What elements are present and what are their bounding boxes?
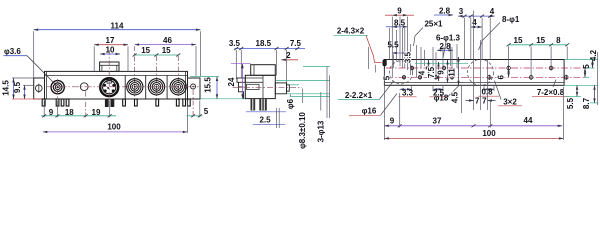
svg-text:7: 7 [475, 97, 480, 106]
phi18 hidden circle [468, 59, 494, 85]
svg-text:4: 4 [418, 70, 427, 75]
svg-text:9: 9 [49, 108, 54, 117]
dimension 100 bottom [384, 87, 563, 140]
RCA pins lower row [488, 75, 569, 80]
left mounting ear [34, 78, 45, 99]
svg-text:4.5: 4.5 [451, 91, 460, 103]
svg-text:5: 5 [582, 64, 591, 69]
ext stubs below body [412, 85, 495, 91]
side view top block [251, 65, 276, 76]
jack J1 concentric [51, 81, 64, 94]
dimension 9 top [385, 7, 414, 16]
svg-text:15: 15 [514, 36, 523, 45]
rotated small dims 3.5 4 7.5 9 11 5 [383, 51, 457, 80]
svg-text:24: 24 [227, 77, 236, 86]
bottom chain 9 37 44 [384, 69, 562, 140]
top chain dim line 3.5 18.5 7.5 [229, 39, 305, 84]
label 3-phi13 rotated [316, 92, 325, 142]
svg-text:7: 7 [482, 97, 487, 106]
left ear hole [36, 85, 43, 92]
svg-text:19: 19 [92, 108, 101, 117]
mounting slot 4.3x2 [383, 60, 386, 66]
svg-text:2.5: 2.5 [259, 115, 271, 124]
dimension 24 rotated [227, 64, 251, 99]
svg-text:10: 10 [106, 45, 115, 54]
svg-text:φ8.3±0.10: φ8.3±0.10 [298, 112, 307, 149]
svg-text:φ3.6: φ3.6 [4, 47, 21, 56]
label phi18 with leader [434, 86, 459, 103]
side view main body [245, 75, 275, 98]
plain hole [80, 83, 88, 91]
svg-text:100: 100 [107, 123, 121, 132]
dimension 6 between pin rows [497, 68, 509, 80]
far right ext vertical [597, 52, 599, 105]
label 7-2x0.8 with leader [532, 80, 569, 97]
svg-text:3: 3 [459, 7, 464, 16]
label 6-phi1.3 [436, 34, 461, 58]
svg-text:46: 46 [163, 36, 172, 45]
RCA jack 2 [148, 79, 164, 95]
label 2-2.2x1 with leader [338, 81, 394, 100]
left slot ext line [368, 47, 370, 69]
dimension 15.5 rotated [190, 77, 246, 99]
side view front tab [237, 78, 245, 82]
svg-text:2.8: 2.8 [439, 6, 451, 15]
dimension 8.5 [386, 18, 407, 27]
mini-DIN connector U1 [100, 78, 118, 96]
jack J1 vertical centerline [56, 79, 58, 100]
svg-text:φ18: φ18 [434, 94, 449, 103]
svg-text:7-2×0.8: 7-2×0.8 [537, 88, 565, 97]
dimension 5 bottom right [187, 90, 209, 117]
DIN vertical centerline [108, 50, 110, 100]
svg-text:3-φ13: 3-φ13 [316, 120, 325, 142]
svg-text:15.5: 15.5 [204, 77, 213, 93]
RCA jack 3 [170, 79, 186, 95]
dimension 5.5 [387, 40, 407, 68]
svg-text:5.5: 5.5 [566, 97, 575, 109]
svg-text:3.3: 3.3 [402, 88, 414, 97]
svg-text:3.5: 3.5 [229, 39, 241, 48]
side view legs hatched [251, 99, 256, 111]
dimension 2.5 [430, 88, 449, 97]
label phi8.3 +-0.10 rotated [298, 89, 307, 149]
svg-text:114: 114 [111, 22, 124, 31]
ext line to DIN pins [415, 63, 468, 65]
RCA bezel partitions [125, 75, 167, 99]
svg-text:φ16: φ16 [362, 107, 377, 116]
svg-text:18.5: 18.5 [256, 39, 272, 48]
svg-text:2-4.3×2: 2-4.3×2 [337, 27, 365, 36]
side view rear barrel [275, 83, 286, 94]
dimension 2.8 b [437, 42, 453, 51]
dimension 2.5 bottom [253, 108, 285, 128]
dimension 3 top [458, 7, 495, 17]
ext verticals far right of side view [326, 67, 328, 119]
pin row centerline upper [386, 67, 584, 69]
dimension 4 top b [471, 18, 482, 27]
din raised block [100, 62, 119, 71]
bottom chain dims 9 18 19 [41, 92, 116, 118]
svg-text:8: 8 [556, 36, 561, 45]
panel inner top line [45, 74, 188, 76]
svg-text:17: 17 [106, 36, 115, 45]
DIN pins upper row [410, 66, 445, 71]
label 3x2 with leader [495, 81, 523, 107]
svg-text:6: 6 [497, 75, 506, 80]
top block seam line [253, 65, 255, 76]
svg-text:3×2: 3×2 [503, 97, 517, 106]
svg-text:9: 9 [437, 70, 446, 75]
solder legs row [42, 99, 190, 106]
dimension 7.5 [290, 39, 302, 48]
dimension 9.5 rotated [13, 81, 35, 99]
svg-text:5: 5 [204, 107, 209, 116]
svg-text:9: 9 [397, 7, 402, 16]
RCA pins upper row [507, 65, 553, 70]
dimension 2 [281, 51, 298, 60]
ext lines right of side view [276, 67, 330, 97]
svg-text:4: 4 [490, 7, 495, 16]
right ear hole [191, 84, 196, 89]
RCA jack 1 [127, 79, 143, 95]
svg-text:2: 2 [286, 51, 291, 60]
side view barrel tip [287, 85, 290, 91]
svg-text:2.8: 2.8 [439, 42, 451, 51]
svg-text:11: 11 [448, 68, 457, 77]
phi16 hidden circle [389, 61, 412, 84]
svg-text:8.7: 8.7 [582, 97, 591, 109]
dimension 3.3 [399, 88, 417, 97]
dimension 5.5 rotated bottom [566, 85, 577, 109]
svg-text:8-φ1: 8-φ1 [502, 15, 520, 24]
svg-text:9: 9 [390, 116, 395, 125]
label phi16 with leader [349, 94, 397, 116]
dimension 114 [34, 22, 201, 78]
dimension 46 [135, 36, 196, 76]
bottom view body outline [384, 60, 564, 86]
label 2-4.3x2 with leader [334, 27, 382, 73]
svg-text:14.5: 14.5 [2, 80, 11, 96]
side view snap clip [239, 82, 244, 98]
din ground legs [105, 99, 109, 107]
svg-text:5.5: 5.5 [387, 40, 399, 49]
right ext horizontals [564, 60, 598, 103]
svg-text:4: 4 [472, 18, 477, 27]
svg-text:15: 15 [141, 46, 150, 55]
svg-text:15: 15 [536, 36, 545, 45]
pin row centerline lower [386, 76, 584, 78]
label 8-phi1 with leader [479, 15, 520, 50]
svg-text:3.5: 3.5 [404, 51, 413, 63]
panel inner side lines [46, 71, 48, 99]
DIN pins lower row [402, 75, 453, 80]
label phi3.6 with leader [4, 47, 57, 86]
side view contact slot [247, 84, 260, 89]
dimension 7 7 [466, 11, 496, 110]
svg-text:9.5: 9.5 [13, 81, 22, 93]
center axis dash-dot [233, 86, 303, 88]
svg-text:4.2: 4.2 [589, 49, 598, 61]
side view internal lines [245, 77, 263, 79]
svg-text:100: 100 [482, 129, 496, 138]
label phi6 rotated [286, 94, 295, 109]
svg-text:37: 37 [433, 116, 442, 125]
svg-text:44: 44 [524, 116, 533, 125]
dimension 17 [94, 36, 128, 71]
svg-text:7.5: 7.5 [427, 66, 436, 78]
dimension 14.5 rotated [2, 78, 43, 99]
svg-text:15: 15 [162, 46, 171, 55]
svg-text:5: 5 [383, 75, 392, 80]
horizontal centerline through connectors [47, 86, 199, 88]
dimension 8.7 rotated bottom [582, 85, 594, 109]
panel body outline [45, 71, 188, 99]
dimension 2.8 top a [434, 6, 453, 15]
svg-text:18: 18 [65, 108, 74, 117]
dimension 4.5 rotated [451, 85, 462, 113]
dimension 0.8 [478, 87, 499, 96]
svg-text:φ6: φ6 [286, 98, 295, 109]
dimension 100 [43, 101, 188, 134]
dimension 4 top a [490, 7, 495, 16]
svg-text:7.5: 7.5 [290, 39, 302, 48]
right mounting ear [188, 78, 201, 99]
dimension 10 [100, 45, 120, 54]
svg-text:25×1: 25×1 [424, 19, 443, 28]
dimension 5 rotated [582, 64, 591, 78]
svg-text:2-2.2×1: 2-2.2×1 [345, 91, 373, 100]
maze extension verticals [390, 17, 491, 78]
dimension 15 15 [133, 46, 181, 100]
dimension 15 15 8 top right [507, 36, 570, 75]
vertical dim lines with arrows in maze [429, 57, 459, 85]
dimension 4.2 rotated [589, 49, 598, 68]
label 25x1 with leader [414, 19, 444, 46]
